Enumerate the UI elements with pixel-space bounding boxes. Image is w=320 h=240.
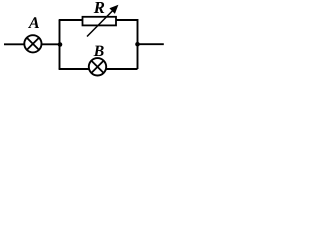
wire left lead xyxy=(4,43,24,45)
node left junction xyxy=(58,42,63,47)
wire rheostat to right vertical xyxy=(116,20,138,44)
wire bottom rail left xyxy=(59,68,89,70)
wire top-left to rheostat xyxy=(59,19,83,21)
label R xyxy=(94,2,105,13)
wire right vertical lower xyxy=(137,44,139,69)
rheostat R box xyxy=(83,17,117,26)
lamp B xyxy=(89,58,106,75)
wire left vertical xyxy=(59,20,61,69)
wire bottom rail right xyxy=(106,68,137,70)
wire right lead xyxy=(138,43,164,45)
label B xyxy=(94,46,104,56)
node right junction xyxy=(135,42,140,47)
lamp A xyxy=(24,35,41,52)
rheostat arrow xyxy=(87,5,118,37)
wire lamp A to left junction xyxy=(42,43,60,45)
label A xyxy=(28,17,39,28)
